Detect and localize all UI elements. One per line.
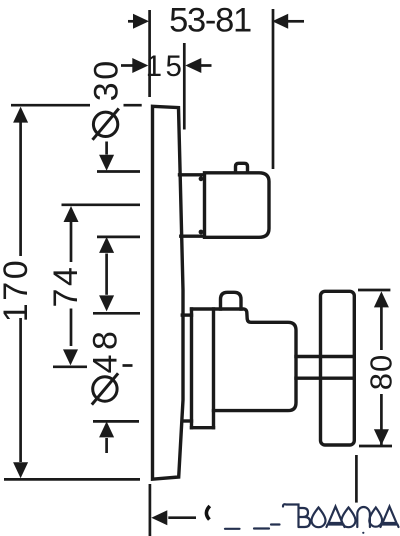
cut-off dimension digit fragment	[206, 506, 209, 520]
arrow 15 left	[132, 58, 148, 73]
arrow dia30 bottom	[99, 237, 114, 253]
arrow 170 top	[13, 107, 28, 123]
safety stop knob	[221, 292, 242, 309]
dim170 bottom extension	[4, 478, 140, 481]
bottom valve flange divider	[212, 309, 215, 428]
svg-text:30: 30	[87, 58, 125, 101]
top handle neck bottom line	[181, 234, 203, 237]
dim 15 right tail	[201, 64, 212, 67]
bottom dim tail	[168, 516, 196, 519]
top handle clip upper	[199, 176, 204, 181]
dim80 shaft upper	[380, 306, 383, 350]
watermark letter a	[369, 508, 382, 527]
bottom valve neck bottom line	[183, 419, 192, 422]
arrow 53-81 right	[272, 14, 288, 29]
arrow 74 bottom	[63, 349, 78, 365]
dia30 bottom extension	[97, 236, 140, 239]
arrow dia48 top	[99, 295, 114, 311]
watermark letter V	[283, 504, 310, 527]
dim170 shaft upper	[19, 122, 22, 256]
arrow 15 right	[185, 58, 201, 73]
extension line wall face	[148, 10, 151, 97]
wall plate side view	[153, 106, 184, 479]
arrow 170 bottom	[13, 462, 28, 478]
arrow 74 top	[64, 206, 79, 222]
watermark letter d1	[327, 507, 345, 528]
top handle body	[205, 173, 270, 238]
arrow dia30 top	[99, 155, 114, 171]
svg-text:53-81: 53-81	[169, 2, 251, 40]
bottom valve neck top line	[182, 313, 191, 316]
dim74 shaft lower	[70, 309, 73, 347]
watermark letter o1	[312, 508, 326, 528]
dim80 top extension	[358, 289, 390, 292]
cross handle bar	[321, 291, 355, 445]
dia48 top extension	[93, 312, 140, 315]
svg-text:15: 15	[146, 50, 186, 83]
extension line plate back face	[183, 43, 186, 130]
watermark letter o2	[342, 508, 356, 528]
dim170 top extension	[11, 104, 90, 107]
dia48 leader below	[105, 438, 108, 453]
axis extension bottom valve	[53, 365, 87, 368]
watermark dash 3	[254, 527, 269, 529]
arrow dia48 bottom	[99, 421, 114, 437]
arrow 80 bottom	[374, 429, 389, 445]
extension line handle front face	[272, 9, 275, 169]
dim74 shaft upper	[70, 221, 73, 262]
dim80 shaft lower	[380, 394, 383, 446]
axis extension top handle	[62, 203, 141, 206]
watermark dash 2	[225, 528, 240, 530]
dim80 bottom extension	[359, 445, 392, 448]
watermark dot under p	[362, 532, 364, 534]
arrow 80 top	[374, 291, 389, 307]
bottom valve flange left edge	[190, 309, 193, 428]
svg-text:48: 48	[87, 327, 125, 374]
handle stem lower line	[296, 377, 352, 380]
dia symbol for 30	[93, 112, 117, 136]
dia30 top extension	[97, 170, 140, 173]
watermark letter p	[357, 507, 370, 527]
arrow 53-81 left	[133, 14, 149, 29]
handle stem upper line	[296, 355, 352, 358]
dim 53-81 left tail	[128, 20, 133, 23]
svg-text:74: 74	[47, 264, 85, 307]
dia symbol for 48	[93, 377, 117, 401]
dim170 shaft lower	[19, 318, 22, 462]
leader between dia30 and dia48	[105, 254, 108, 295]
dia48 bottom extension	[93, 420, 139, 423]
watermark letter d2	[381, 507, 399, 528]
bottom valve body outline	[192, 309, 297, 411]
top handle neck top line	[180, 173, 204, 176]
watermark dash 4	[271, 523, 280, 525]
svg-text:80: 80	[363, 354, 398, 390]
bottom dim extension from plate	[149, 484, 152, 536]
top handle button	[236, 163, 248, 171]
bottom dim extension from handle	[355, 455, 358, 503]
dim 15 left tail	[121, 64, 133, 67]
dim170 top extension right part	[124, 104, 142, 107]
svg-text:170: 170	[0, 258, 35, 323]
dia30 leader above	[105, 142, 108, 155]
arrow bottom dim	[151, 510, 167, 525]
axis extension bottom valve right dash	[123, 364, 133, 367]
dim 53-81 right tail	[288, 20, 304, 23]
top handle clip lower	[199, 230, 204, 235]
bottom valve flange bottom	[192, 426, 214, 429]
